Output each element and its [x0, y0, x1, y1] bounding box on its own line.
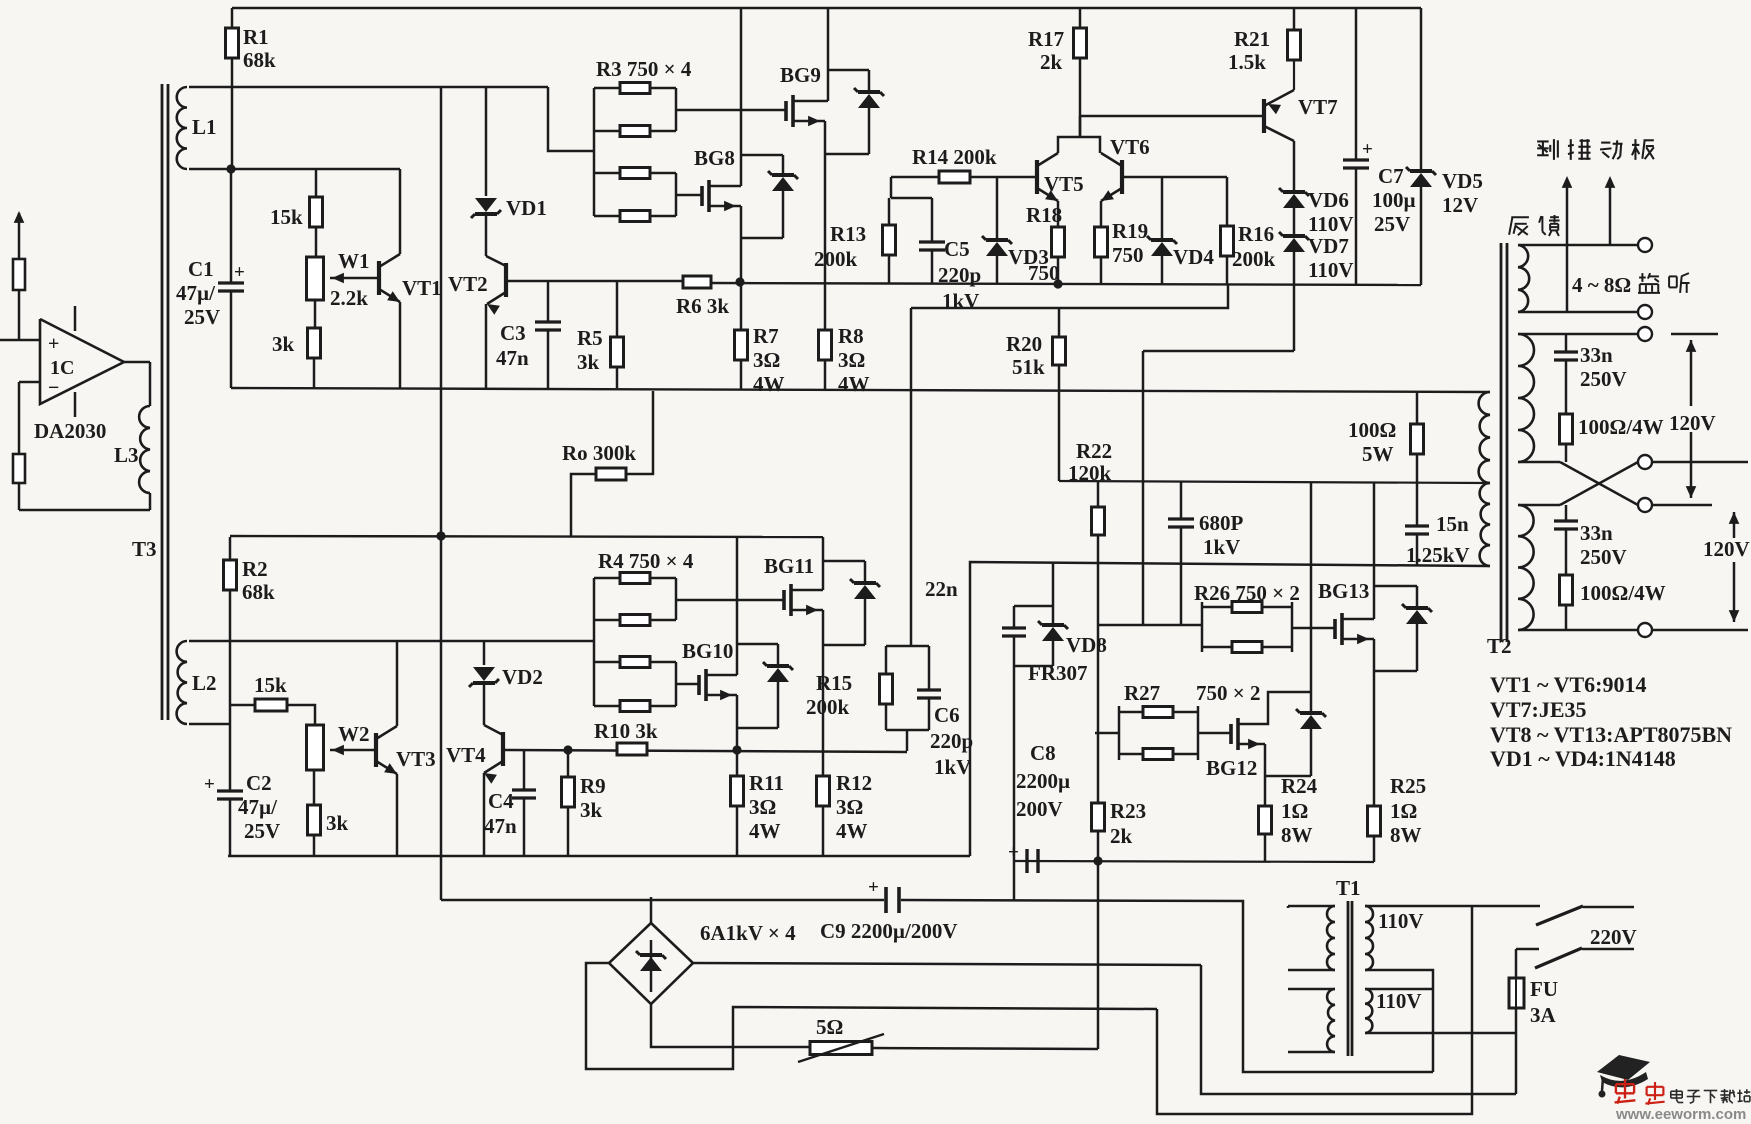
transformer T1 core	[1348, 901, 1352, 1056]
svg-text:110V: 110V	[1308, 212, 1354, 236]
resistor R3a	[620, 83, 650, 94]
wire BG8 diode top link	[741, 154, 783, 157]
switch lower	[1516, 948, 1634, 968]
label VD2	[502, 665, 543, 689]
label 220V	[1590, 925, 1637, 949]
label R3	[596, 57, 692, 81]
svg-text:VT2: VT2	[448, 272, 488, 296]
svg-text:VD1 ~ VD4:1N4148: VD1 ~ VD4:1N4148	[1490, 746, 1676, 771]
capacitor C1	[218, 169, 245, 388]
wire R3cd right rail	[594, 173, 676, 216]
wire L1 top	[189, 86, 548, 89]
resistor R15	[880, 646, 893, 730]
svg-text:C3: C3	[500, 321, 526, 345]
resistor R21	[1288, 30, 1301, 60]
svg-text:R24: R24	[1281, 774, 1318, 798]
label 3k upper	[272, 332, 295, 356]
svg-text:200V: 200V	[1016, 797, 1063, 821]
label 22n	[925, 577, 958, 601]
diode BG12 body	[1296, 692, 1326, 776]
wire VT5 emitter	[1057, 201, 1060, 227]
label R10	[594, 719, 658, 743]
diode BG13 body	[1402, 586, 1432, 671]
svg-text:VD7: VD7	[1308, 234, 1349, 258]
capacitor 680P	[1168, 482, 1194, 625]
svg-text:+: +	[868, 877, 879, 898]
wire feedback top	[1518, 244, 1638, 247]
node R10-BG10 junction	[732, 745, 741, 754]
label BG8	[694, 146, 735, 170]
svg-text:VT7: VT7	[1298, 95, 1338, 119]
svg-text:+: +	[48, 333, 59, 355]
wire R1 branch	[231, 8, 234, 168]
wire op out to L3	[124, 362, 150, 406]
svg-text:100Ω: 100Ω	[1348, 418, 1396, 442]
inductor T2 secondary lower	[1518, 505, 1534, 630]
wire sec1 top	[1518, 333, 1638, 336]
wire AC1 path	[1201, 965, 1516, 1094]
wire ground bus lower	[228, 855, 970, 857]
resistor R17	[1074, 28, 1087, 137]
svg-text:W1: W1	[338, 249, 370, 273]
wire sec lower bottom	[1365, 1032, 1516, 1035]
wire BG8 diode bottom link	[741, 237, 783, 240]
label VD5	[1442, 169, 1483, 217]
svg-text:DA2030: DA2030	[34, 419, 106, 443]
resistor R8	[819, 330, 832, 389]
resistor R4b	[620, 615, 650, 626]
capacitor C4	[512, 750, 536, 856]
label BG12	[1206, 756, 1257, 780]
label BG10	[682, 639, 733, 663]
wire BG10 drain	[706, 537, 737, 675]
svg-text:2.2k: 2.2k	[330, 286, 368, 310]
wire driver arrow left	[1562, 176, 1573, 312]
capacitor 33n lower	[1554, 505, 1578, 575]
label R13	[814, 222, 866, 271]
transistor BG9	[786, 95, 793, 127]
label 15k lower	[254, 673, 287, 697]
capacitor 15n	[1405, 483, 1429, 566]
inductor T2 primary upper	[1479, 392, 1490, 483]
label R24	[1281, 774, 1318, 847]
label C5	[938, 237, 981, 313]
wire VT4 base bus	[503, 750, 907, 752]
svg-text:1kV: 1kV	[942, 289, 979, 313]
label R9	[580, 774, 606, 822]
svg-text:VT6: VT6	[1110, 135, 1150, 159]
transistor VT2	[486, 263, 506, 388]
wire BG11 drain	[791, 537, 823, 590]
label 3k lower	[326, 811, 349, 835]
terminal sec1 top	[1638, 327, 1652, 341]
resistor 3k lower	[308, 805, 321, 835]
svg-text:68k: 68k	[242, 580, 275, 604]
wire BG10 gate lead	[676, 683, 699, 686]
svg-text:R25: R25	[1390, 774, 1426, 798]
resistor R27b	[1143, 749, 1173, 760]
capacitor 22n	[1002, 606, 1026, 666]
svg-text:1.5k: 1.5k	[1228, 50, 1266, 74]
svg-text:C6: C6	[934, 703, 960, 727]
capacitor C3	[535, 281, 561, 388]
svg-text:R14 200k: R14 200k	[912, 145, 997, 169]
label T2	[1487, 634, 1512, 658]
svg-text:R1: R1	[243, 25, 269, 49]
diode BG10 body	[763, 644, 793, 728]
svg-text:T2: T2	[1487, 634, 1512, 658]
label 33n lower	[1580, 521, 1627, 569]
resistor R1	[226, 28, 239, 58]
svg-text:4W: 4W	[838, 372, 870, 396]
label C8	[1016, 741, 1070, 821]
svg-text:VT5: VT5	[1044, 172, 1084, 196]
wire R27 left rail	[1118, 706, 1121, 760]
wire fuse branch	[1515, 949, 1518, 978]
wire ground bus upper	[231, 388, 1486, 392]
svg-text:3k: 3k	[580, 798, 603, 822]
label T1	[1336, 876, 1361, 900]
wire R2 branch	[229, 537, 232, 560]
label R19	[1112, 219, 1148, 267]
svg-text:L1: L1	[192, 115, 217, 139]
diode VD7	[1279, 232, 1309, 285]
diode VD4	[1147, 177, 1177, 284]
switch upper	[1536, 906, 1634, 925]
wire C9 bus	[441, 899, 884, 902]
wire top supply rail	[232, 7, 1421, 9]
label VD8	[1028, 633, 1107, 685]
svg-text:33n: 33n	[1580, 521, 1613, 545]
wire R26 right rail	[1291, 602, 1294, 652]
label R6	[676, 294, 729, 318]
svg-text:5W: 5W	[1362, 442, 1394, 466]
svg-text:47µ/: 47µ/	[238, 795, 278, 819]
svg-text:R2: R2	[242, 557, 268, 581]
label R5	[577, 326, 603, 374]
wire C8 bottom bus	[1014, 861, 1374, 862]
label R23	[1110, 799, 1146, 848]
wire mid bus	[230, 536, 823, 537]
svg-text:R4 750 × 4: R4 750 × 4	[598, 549, 694, 573]
wire BG9 drain	[793, 8, 828, 101]
resistor R4c	[620, 657, 650, 668]
wire BG8 gate lead	[676, 194, 702, 197]
svg-text:R23: R23	[1110, 799, 1146, 823]
terminal feedback top	[1638, 238, 1652, 252]
label 750x2	[1196, 681, 1260, 705]
wire input to +	[0, 290, 40, 340]
svg-text:120V: 120V	[1669, 411, 1716, 435]
label 100ohm4W lower	[1580, 581, 1666, 605]
node R18 junction	[1053, 279, 1062, 288]
dim arrow upper	[1652, 334, 1718, 505]
label C2	[238, 771, 280, 843]
label T3	[132, 537, 157, 561]
svg-text:750 × 2: 750 × 2	[1196, 681, 1260, 705]
potentiometer W2	[307, 725, 324, 770]
wire feedback bottom	[1518, 311, 1638, 314]
svg-text:R5: R5	[577, 326, 603, 350]
resistor input upper	[13, 259, 25, 290]
wire crossover a	[1518, 462, 1638, 505]
svg-text:T3: T3	[132, 537, 157, 561]
node mid bus junction	[436, 531, 445, 540]
wire BG13 source	[1342, 634, 1374, 806]
label 15k upper	[270, 205, 303, 229]
wire driver arrow right	[1605, 176, 1616, 245]
wire VD8 box bottom	[1014, 665, 1053, 668]
label VD7	[1308, 234, 1354, 282]
label VT1	[402, 276, 442, 300]
label W1	[338, 249, 370, 273]
svg-text:−: −	[48, 377, 59, 399]
inductor L3	[139, 406, 150, 493]
diode VD8	[1038, 606, 1068, 666]
svg-text:R19: R19	[1112, 219, 1148, 243]
diode VD1	[471, 198, 501, 218]
label R17	[1028, 27, 1064, 74]
svg-text:1.25kV: 1.25kV	[1406, 543, 1470, 567]
label R14	[912, 145, 997, 169]
wire R27 right rail	[1197, 706, 1200, 760]
diode VD5	[1406, 8, 1436, 285]
svg-text:47n: 47n	[484, 814, 517, 838]
svg-text:3A: 3A	[1530, 1003, 1557, 1027]
inductor T2 primary lower	[1480, 483, 1490, 566]
svg-text:8W: 8W	[1390, 823, 1422, 847]
label 110V lower	[1376, 989, 1422, 1013]
svg-text:+: +	[234, 262, 245, 283]
svg-text:1Ω: 1Ω	[1281, 799, 1308, 823]
svg-text:5Ω: 5Ω	[816, 1015, 843, 1039]
label 100ohm4W upper	[1578, 411, 1716, 439]
svg-text:R16: R16	[1238, 222, 1274, 246]
svg-text:VD2: VD2	[502, 665, 543, 689]
transistor BG13	[1335, 613, 1342, 645]
inductor L2	[177, 641, 187, 724]
svg-text:R9: R9	[580, 774, 606, 798]
svg-text:3Ω: 3Ω	[749, 795, 776, 819]
svg-text:R7: R7	[753, 324, 779, 348]
wire BG11 gate bus	[676, 599, 784, 602]
svg-text:51k: 51k	[1012, 355, 1045, 379]
label 15n	[1406, 512, 1470, 567]
rectifier bridge	[609, 923, 693, 1004]
svg-text:+: +	[204, 774, 215, 795]
svg-text:BG12: BG12	[1206, 756, 1257, 780]
wire VD1 to VT2	[486, 214, 506, 266]
svg-text:4W: 4W	[753, 372, 785, 396]
label R11	[749, 771, 784, 843]
label 33n upper	[1580, 343, 1627, 391]
svg-text:4W: 4W	[836, 819, 868, 843]
capacitor C2	[204, 774, 243, 856]
wire ladder feed upper	[548, 87, 594, 151]
label 120V lower	[1703, 537, 1750, 561]
wire bias bus	[911, 285, 1228, 308]
resistor R7	[735, 282, 748, 389]
svg-text:6A1kV × 4: 6A1kV × 4	[700, 921, 796, 945]
transistor VT1	[379, 169, 400, 388]
svg-text:R13: R13	[830, 222, 866, 246]
label DA2030	[34, 419, 106, 443]
svg-text:110V: 110V	[1378, 909, 1424, 933]
resistor R3b	[620, 126, 650, 137]
resistor R26a	[1232, 602, 1262, 613]
label FU	[1530, 977, 1558, 1027]
wire feedback bottom	[19, 483, 150, 510]
svg-text:2k: 2k	[1040, 50, 1063, 74]
svg-text:VT1: VT1	[402, 276, 442, 300]
svg-text:R20: R20	[1006, 332, 1042, 356]
inductor T1 secondary lower	[1365, 989, 1433, 1033]
svg-text:250V: 250V	[1580, 545, 1627, 569]
wire bridge right	[693, 963, 1201, 965]
diode VD3	[982, 177, 1012, 284]
label L3	[114, 443, 139, 467]
wire bridge top	[650, 897, 653, 923]
terminal crossover lower	[1638, 498, 1652, 512]
wire W2 to 3k	[313, 770, 316, 805]
resistor R27a	[1143, 707, 1173, 718]
terminal feedback bottom	[1638, 305, 1652, 319]
svg-text:3Ω: 3Ω	[838, 348, 865, 372]
transistor VT7	[1264, 60, 1294, 141]
svg-text:1kV: 1kV	[1203, 535, 1240, 559]
node R23 junction	[1093, 856, 1102, 865]
label fankui	[1509, 215, 1559, 236]
svg-text:R10 3k: R10 3k	[594, 719, 658, 743]
wire R4 left rail	[593, 578, 596, 706]
resistor input lower	[13, 454, 25, 483]
svg-text:3k: 3k	[577, 350, 600, 374]
label C3	[496, 321, 529, 370]
label R2	[242, 557, 275, 604]
svg-text:200k: 200k	[1232, 247, 1276, 271]
svg-text:47µ/: 47µ/	[176, 281, 216, 305]
svg-text:Ro 300k: Ro 300k	[562, 441, 636, 465]
svg-text:15k: 15k	[270, 205, 303, 229]
resistor R2	[224, 560, 237, 590]
inductor T2 feedback	[1518, 245, 1529, 312]
svg-text:33n: 33n	[1580, 343, 1613, 367]
diode BG8 body	[768, 155, 798, 238]
resistor R5	[611, 281, 624, 388]
label R15	[806, 671, 852, 719]
node L1-C1 junction	[226, 164, 235, 173]
svg-text:R18: R18	[1026, 203, 1062, 227]
svg-text:C5: C5	[944, 237, 970, 261]
wire 3k lower to bus	[313, 835, 316, 856]
svg-text:R11: R11	[749, 771, 784, 795]
label VD1	[506, 196, 547, 220]
label L1	[192, 115, 217, 139]
capacitor C9	[868, 877, 899, 913]
wire VD2 to VT4	[484, 683, 503, 735]
label R4	[598, 549, 694, 573]
wire VD7 to lower	[1143, 285, 1294, 625]
svg-text:220V: 220V	[1590, 925, 1637, 949]
label VD4	[1173, 245, 1214, 269]
wire R15C6 bottom	[886, 730, 929, 751]
wire 5ohm right	[872, 1048, 1098, 1049]
svg-text:R12: R12	[836, 771, 872, 795]
wire L2 bottom	[189, 723, 230, 726]
wire crossover b	[1518, 462, 1638, 505]
resistor R13	[883, 198, 896, 284]
label BG13	[1318, 579, 1369, 603]
svg-text:15n: 15n	[1436, 512, 1469, 536]
svg-text:C4: C4	[488, 789, 514, 813]
label R1	[243, 25, 276, 72]
wire W1 wiper	[330, 273, 379, 284]
resistor R6	[683, 276, 711, 288]
label VT4	[446, 743, 486, 767]
svg-text:2k: 2k	[1110, 824, 1133, 848]
label L2	[192, 671, 217, 695]
wire L2 top feed	[189, 640, 594, 643]
wire BG13 diode top link	[1374, 585, 1417, 588]
svg-text:110V: 110V	[1308, 258, 1354, 282]
wire - input	[19, 382, 40, 454]
inductor T2 secondary upper	[1518, 334, 1534, 462]
svg-text:R27: R27	[1124, 681, 1160, 705]
capacitor C5	[919, 198, 945, 284]
svg-text:VT3: VT3	[396, 747, 436, 771]
resistor 15k lower	[230, 699, 315, 725]
transistor BG11	[784, 584, 791, 616]
wire BG12 diode bottom link	[1265, 775, 1311, 778]
svg-text:VD1: VD1	[506, 196, 547, 220]
capacitor 33n upper	[1554, 334, 1578, 414]
svg-text:110V: 110V	[1376, 989, 1422, 1013]
svg-text:R15: R15	[816, 671, 852, 695]
svg-text:220p: 220p	[938, 263, 981, 287]
transistor BG8	[702, 180, 709, 212]
svg-text:4 ~ 8Ω: 4 ~ 8Ω	[1572, 273, 1631, 297]
wire VT6 base	[1122, 176, 1227, 179]
resistor R18	[1052, 227, 1065, 284]
label R25	[1390, 774, 1426, 847]
transistor VT3	[376, 641, 397, 856]
svg-text:C7: C7	[1378, 164, 1404, 188]
svg-text:www.eeworm.com: www.eeworm.com	[1615, 1106, 1746, 1119]
wire BG12 drain	[1238, 692, 1311, 724]
svg-text:100Ω/4W: 100Ω/4W	[1578, 415, 1664, 439]
svg-text:VT8 ~ VT13:APT8075BN: VT8 ~ VT13:APT8075BN	[1490, 722, 1732, 747]
svg-text:R3 750 × 4: R3 750 × 4	[596, 57, 692, 81]
label R27	[1124, 681, 1160, 705]
wire output bus	[711, 283, 1421, 285]
label R8	[838, 324, 870, 396]
terminal sec2 bottom	[1638, 623, 1652, 637]
potentiometer W1	[307, 257, 324, 300]
label R16	[1232, 222, 1276, 271]
svg-text:L3: L3	[114, 443, 139, 467]
resistor R4a	[620, 573, 650, 584]
wire BG8 drain	[709, 8, 741, 186]
svg-text:BG11: BG11	[764, 554, 814, 578]
wire T1 primary top drop	[1287, 906, 1290, 908]
diode VD2	[469, 641, 499, 687]
inductor T1 primary lower	[1288, 989, 1335, 1052]
wire R17 riser	[1079, 116, 1082, 137]
resistor R14	[891, 171, 1037, 198]
svg-text:3k: 3k	[326, 811, 349, 835]
wire VD8 down	[1013, 666, 1016, 901]
wire BG12 drain riser	[1310, 483, 1313, 692]
